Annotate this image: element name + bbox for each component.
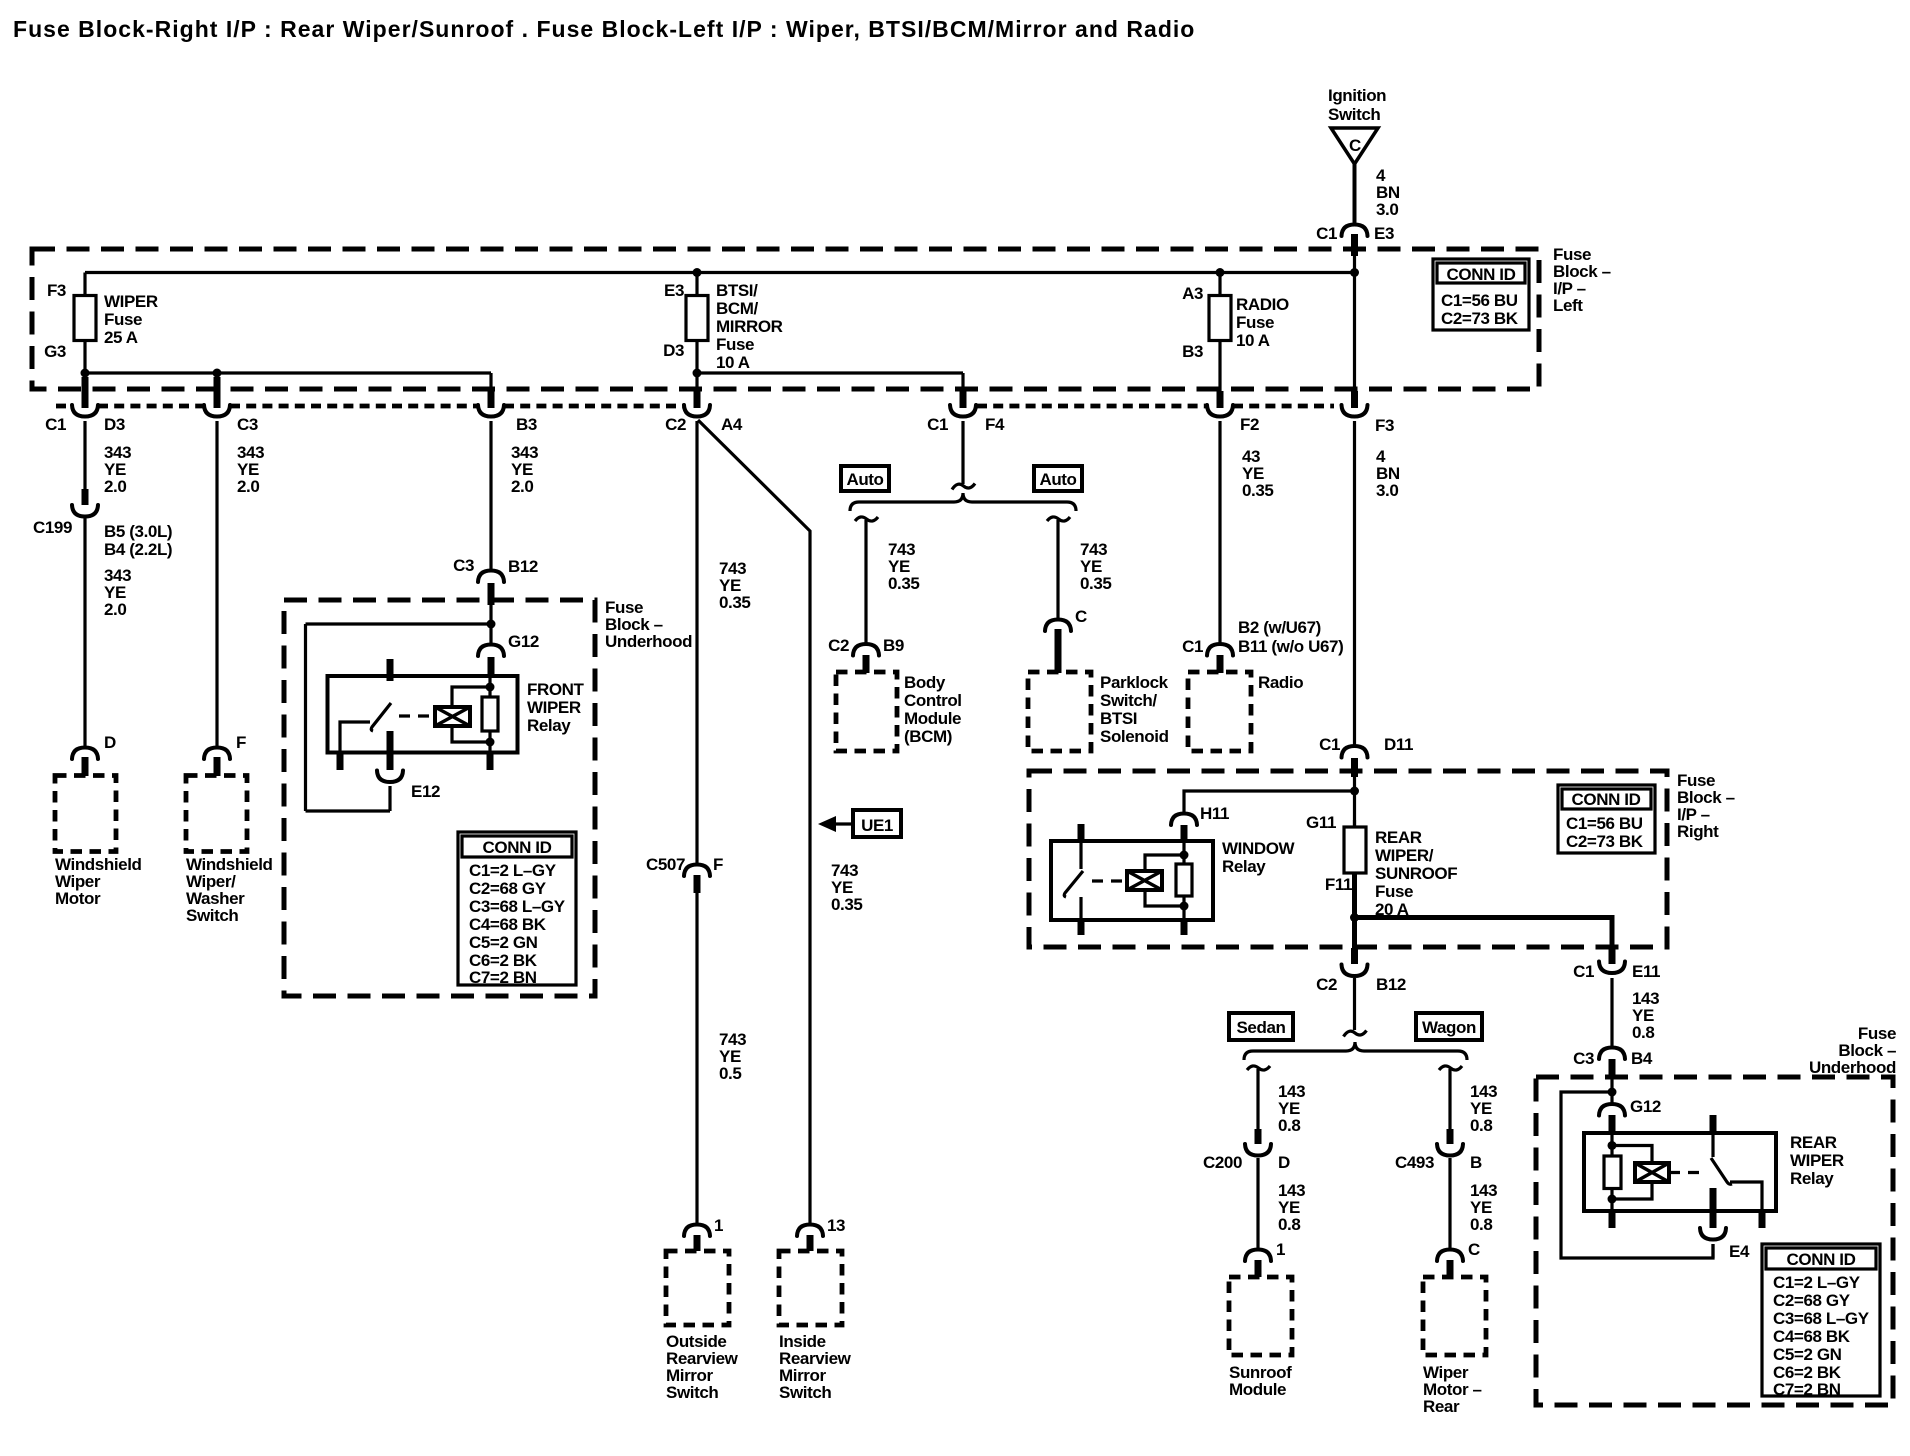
svg-text:C1=2 L–GY: C1=2 L–GY [469,861,557,880]
svg-text:G11: G11 [1306,813,1336,832]
svg-text:2.0: 2.0 [237,477,259,496]
svg-text:0.35: 0.35 [1080,574,1112,593]
svg-text:C2=73 BK: C2=73 BK [1441,309,1519,328]
label Fuse Block - Underhood [605,598,692,651]
window relay coil X-box [1127,871,1162,890]
node fuse out [1350,913,1359,922]
svg-text:Right: Right [1677,822,1719,841]
connector C1 (radio) [1182,618,1343,673]
inside rearview mirror switch box [779,1251,842,1325]
wire B12 to G12 [489,605,492,646]
windshield wiper/washer switch box [186,776,247,852]
wire label 143 YE 0.8 [1632,989,1659,1042]
wire E12 to loop [388,786,391,811]
relay pin bottom E12 [387,731,394,770]
svg-text:Fuse: Fuse [716,335,754,354]
svg-text:Module: Module [904,709,961,728]
svg-text:B3: B3 [1182,342,1203,361]
window relay coil branch [1145,855,1184,906]
Fuse Block - I/P - Left dashed box [32,249,1539,389]
svg-text:B2 (w/U67): B2 (w/U67) [1238,618,1321,637]
svg-text:E11: E11 [1632,962,1660,981]
connector C1/D3 [45,377,125,434]
wire C507 to outside mirror switch [695,893,698,1224]
window relay pin top-left [1078,824,1085,843]
svg-text:C7=2 BN: C7=2 BN [469,968,537,987]
svg-text:Switch: Switch [779,1383,831,1402]
label Fuse Block - I/P - Left [1553,245,1611,315]
svg-text:WIPER: WIPER [1790,1151,1844,1170]
connector 1 (sunroof) [1245,1240,1285,1277]
rear loop wire [1561,1092,1713,1258]
svg-text:Switch/: Switch/ [1100,691,1157,710]
wire label 43 YE 0.35 [1242,447,1274,500]
REAR WIPER relay box [1584,1133,1776,1211]
wire label 143 YE 0.8 [1278,1082,1305,1135]
svg-text:Fuse: Fuse [1375,882,1413,901]
wire B12 to split [1353,978,1356,1030]
svg-text:CONN ID: CONN ID [1572,790,1641,809]
relay pin bottom-right stub [487,751,494,770]
options split brace [850,493,1076,511]
left branch hook [855,517,878,521]
Auto tag left [841,466,889,491]
outside rearview mirror switch box [666,1251,729,1325]
svg-text:H11: H11 [1200,804,1229,823]
svg-text:2.0: 2.0 [104,600,126,619]
connector F2 (row) [1207,391,1259,434]
svg-text:E3: E3 [664,281,684,300]
fuse F3/G3 WIPER 25A [44,281,158,361]
wagon branch wire [1448,1069,1451,1130]
svg-text:G12: G12 [1630,1097,1661,1116]
svg-text:C1: C1 [1316,224,1337,243]
wire label 143 YE 0.8 [1470,1082,1497,1135]
svg-text:0.5: 0.5 [719,1064,741,1083]
rear relay switch pin top [1710,1115,1717,1134]
connector H11 [1171,804,1229,843]
connector C1/E3 [1316,224,1394,256]
connector row dotted line (left harness) [56,404,72,409]
relay switch arm [371,703,391,731]
svg-text:BTSI/: BTSI/ [716,281,758,300]
svg-text:MIRROR: MIRROR [716,317,783,336]
svg-text:F11: F11 [1325,875,1352,894]
ignition switch triangle symbol [1331,128,1378,164]
wire label 4 BN 3.0 [1376,447,1400,500]
svg-text:D3: D3 [663,341,684,360]
window relay switch arm [1064,871,1083,897]
wire label 743 YE 0.5 [719,1030,746,1083]
svg-text:F2: F2 [1240,415,1259,434]
svg-text:C2=73 BK: C2=73 BK [1566,832,1644,851]
svg-text:WIPER: WIPER [104,292,158,311]
mechanical link dashes [1669,1171,1706,1174]
svg-text:C7=2 BN: C7=2 BN [1773,1380,1841,1399]
svg-text:0.8: 0.8 [1470,1215,1492,1234]
svg-text:REAR: REAR [1375,828,1422,847]
svg-text:C1: C1 [927,415,948,434]
left branch wire [864,520,867,644]
Wagon tag [1416,1013,1482,1040]
svg-text:A3: A3 [1182,284,1203,303]
Fuse Block - Underhood dashed box (rear) [1536,1077,1893,1405]
svg-text:D11: D11 [1384,735,1413,754]
svg-text:Auto: Auto [846,470,883,489]
connector G12 (rear relay) [1599,1097,1661,1134]
svg-text:3.0: 3.0 [1376,481,1398,500]
svg-text:C3: C3 [1573,1049,1594,1068]
svg-text:0.35: 0.35 [1242,481,1274,500]
node rear loop [1608,1088,1617,1097]
relay pin bottom-left stub [337,751,344,770]
svg-text:Auto: Auto [1039,470,1076,489]
sedan branch hook [1247,1066,1270,1070]
node H11 branch [1350,787,1359,796]
relay coil branch wires [452,687,490,742]
svg-text:10 A: 10 A [1236,331,1270,350]
connector E12 [377,771,440,802]
svg-text:2.0: 2.0 [104,477,126,496]
windshield wiper motor box [55,776,116,852]
svg-text:C3=68 L–GY: C3=68 L–GY [1773,1309,1870,1328]
connector C3/B12 [453,556,538,605]
node loop junction [487,620,496,629]
split squiggle [1344,1031,1367,1037]
svg-text:Underhood: Underhood [605,632,692,651]
Fuse Block - I/P - Right dashed box [1029,771,1667,947]
svg-text:F: F [713,855,723,874]
svg-text:CONN ID: CONN ID [1447,265,1516,284]
svg-text:Sedan: Sedan [1236,1018,1285,1037]
fuse A3/B3 RADIO 10A [1182,284,1289,361]
wire C3 down [215,421,218,747]
svg-text:Body: Body [904,673,946,692]
svg-text:WINDOW: WINDOW [1222,839,1296,858]
svg-text:B3: B3 [516,415,537,434]
svg-text:B11 (w/o U67): B11 (w/o U67) [1238,637,1343,656]
svg-text:C199: C199 [33,518,72,537]
svg-text:F4: F4 [985,415,1005,434]
svg-text:C: C [1075,607,1087,626]
svg-text:3.0: 3.0 [1376,200,1398,219]
wire B3 drop [489,373,492,392]
wire label 743 YE 0.35 [888,540,920,593]
svg-text:Radio: Radio [1258,673,1303,692]
svg-text:Relay: Relay [1222,857,1266,876]
svg-text:C1: C1 [45,415,66,434]
connector row dotted line (right harness) [977,404,1207,409]
svg-text:G12: G12 [508,632,539,651]
wiper motor rear box [1423,1277,1486,1355]
svg-text:0.8: 0.8 [1470,1116,1492,1135]
REAR WIPER/SUNROOF fuse [1306,813,1457,919]
svg-text:REAR: REAR [1790,1133,1837,1152]
svg-text:BCM/: BCM/ [716,299,759,318]
svg-text:Rear: Rear [1423,1397,1460,1416]
connector 1 (outside mirror) [684,1216,723,1251]
svg-text:Module: Module [1229,1380,1286,1399]
svg-text:BTSI: BTSI [1100,709,1137,728]
svg-text:D: D [104,733,116,752]
connector C2/B9 [828,636,904,673]
connector C493/B [1395,1129,1482,1172]
connector C1/F4 [927,391,1005,434]
svg-text:WIPER/: WIPER/ [1375,846,1434,865]
Auto tag right [1034,466,1082,491]
wire label 743 YE 0.35 [1080,540,1112,593]
svg-text:A4: A4 [721,415,743,434]
svg-text:Switch: Switch [666,1383,718,1402]
svg-text:C4=68 BK: C4=68 BK [469,915,547,934]
svg-text:C1: C1 [1573,962,1594,981]
rear relay pin bottom-left stub [1609,1209,1616,1228]
connector C507/F [646,855,723,893]
rear relay pin E4 stub [1710,1188,1717,1228]
svg-text:B: B [1470,1153,1482,1172]
wire F3 right drop [1353,273,1356,393]
svg-text:SUNROOF: SUNROOF [1375,864,1457,883]
svg-text:C3: C3 [237,415,258,434]
wire C199 to motor [83,518,86,747]
UE1 callout arrow [818,810,901,837]
connector B3 (row) [478,391,537,434]
wire to H11 [1184,791,1355,815]
wire C200 down [1256,1158,1259,1250]
wire C1/F4 down [961,421,964,484]
svg-text:WIPER: WIPER [527,698,581,717]
svg-text:C2=68 GY: C2=68 GY [469,879,547,898]
wagon branch hook [1439,1066,1462,1070]
svg-text:0.35: 0.35 [719,593,751,612]
window relay pin bottom-right [1181,918,1188,935]
svg-text:Parklock: Parklock [1100,673,1169,692]
wire label 143 YE 0.8 [1470,1181,1497,1234]
relay pin top-left [387,659,394,681]
wire label 343 YE 2.0 [104,443,131,496]
wire loop bottom [306,809,391,812]
svg-text:G3: G3 [44,342,66,361]
lower bus left [85,371,491,374]
svg-text:C507: C507 [646,855,685,874]
window relay resistor branch [1182,841,1185,920]
svg-text:Control: Control [904,691,962,710]
svg-text:Left: Left [1553,296,1583,315]
connector C (parklock) [1045,607,1087,673]
svg-text:UE1: UE1 [861,816,893,835]
svg-text:FRONT: FRONT [527,680,585,699]
wire E4 to loop [1711,1244,1714,1258]
wire C493 down [1448,1158,1451,1250]
label Fuse Block - I/P - Right [1677,771,1735,841]
wire loop vertical [304,624,307,811]
node at BTSI fuse top [693,268,702,277]
wire label 343 YE 2.0 [511,443,538,496]
svg-text:C: C [1468,1240,1480,1259]
wire label 143 YE 0.8 [1278,1181,1305,1234]
CONN ID table (front underhood) [458,832,576,987]
wire C2/A4 down (outside mirror) [695,421,698,864]
svg-text:C3=68 L–GY: C3=68 L–GY [469,897,566,916]
svg-text:B9: B9 [883,636,904,655]
svg-text:Motor: Motor [55,889,101,908]
svg-text:C: C [1349,136,1361,155]
wire label 743 YE 0.35 [831,861,863,914]
svg-text:25 A: 25 A [104,328,138,347]
connector C2/A4 [665,391,743,434]
svg-text:CONN ID: CONN ID [483,838,552,857]
svg-text:C5=2 GN: C5=2 GN [469,933,538,952]
connector C1/E11 [1573,948,1660,981]
CONN ID table (fuse block right) [1558,785,1655,853]
svg-text:C2: C2 [1316,975,1337,994]
wire RADIO fuse leg [1218,273,1221,393]
svg-text:E3: E3 [1374,224,1394,243]
svg-text:RADIO: RADIO [1236,295,1289,314]
svg-text:E4: E4 [1729,1242,1750,1261]
connector F3 (row) [1342,391,1395,435]
svg-text:C2: C2 [665,415,686,434]
svg-text:C200: C200 [1203,1153,1242,1172]
svg-text:C2: C2 [828,636,849,655]
svg-text:C1=56 BU: C1=56 BU [1441,291,1518,310]
svg-text:C1=56 BU: C1=56 BU [1566,814,1643,833]
sedan branch wire [1256,1069,1259,1130]
svg-text:B4 (2.2L): B4 (2.2L) [104,540,172,559]
svg-text:Fuse: Fuse [104,310,142,329]
wire F3 down to D11 [1353,421,1356,747]
svg-text:Solenoid: Solenoid [1100,727,1169,746]
right branch hook [1047,517,1070,521]
right branch wire [1056,520,1059,618]
window relay fixed contact [1079,843,1082,869]
Sedan tag [1229,1013,1293,1040]
svg-text:Ignition: Ignition [1328,86,1386,105]
connector C3/B4 [1573,1048,1653,1078]
fuse E3/D3 BTSI/BCM/MIRROR 10A [663,281,783,372]
wire E11 down [1610,978,1613,1047]
svg-text:0.8: 0.8 [1632,1023,1654,1042]
rear relay resistor [1604,1156,1621,1189]
rear relay switch arm [1711,1158,1732,1184]
svg-text:C3: C3 [453,556,474,575]
svg-text:B4: B4 [1631,1049,1653,1068]
node at RADIO fuse top [1216,268,1225,277]
ignition switch label [1328,86,1386,124]
svg-text:13: 13 [827,1216,845,1235]
svg-text:Fuse: Fuse [1236,313,1274,332]
connector 13 (inside mirror) [797,1216,845,1251]
svg-text:0.35: 0.35 [888,574,920,593]
svg-text:C1: C1 [1319,735,1340,754]
radio box [1188,672,1251,751]
Fuse Block - Underhood dashed box (front) [284,600,595,996]
connector C (rear wiper motor) [1437,1240,1480,1277]
rear relay pin bottom-right stub [1759,1209,1766,1228]
svg-text:F3: F3 [1375,416,1394,435]
svg-text:C5=2 GN: C5=2 GN [1773,1345,1842,1364]
svg-text:(BCM): (BCM) [904,727,952,746]
wire B4 into box [1610,1077,1613,1105]
wire F3 fuse leg [83,273,86,374]
connector C3 (row) [204,377,258,434]
svg-text:Switch: Switch [186,906,238,925]
svg-text:1: 1 [1276,1240,1285,1259]
CONN ID table (rear underhood) [1762,1244,1880,1399]
svg-text:CONN ID: CONN ID [1787,1250,1856,1269]
connector C200/D [1203,1129,1290,1172]
connector D (wiper motor) [72,733,116,776]
svg-text:0.8: 0.8 [1278,1215,1300,1234]
svg-text:F: F [236,733,246,752]
svg-text:D3: D3 [104,415,125,434]
svg-text:C1: C1 [1182,637,1203,656]
wire B3 down [489,421,492,572]
wire ignition to C1/E3 [1353,164,1357,224]
svg-text:Relay: Relay [527,716,571,735]
svg-text:B12: B12 [1376,975,1406,994]
wire loop horizontal [306,622,492,625]
svg-text:Fuse Block-Right I/P : Rear Wi: Fuse Block-Right I/P : Rear Wiper/Sunroo… [13,16,1195,42]
svg-text:B5 (3.0L): B5 (3.0L) [104,522,172,541]
wire to E11 corner [1355,918,1613,949]
rear relay coil branch [1612,1146,1652,1200]
wire F2 down to radio [1218,421,1221,644]
svg-text:C1=2 L–GY: C1=2 L–GY [1773,1273,1861,1292]
svg-text:1: 1 [714,1216,723,1235]
svg-text:2.0: 2.0 [511,477,533,496]
svg-text:B12: B12 [508,557,538,576]
connector E4 [1700,1228,1750,1261]
svg-text:Wagon: Wagon [1422,1018,1476,1037]
connector C1/D11 [1319,735,1413,777]
window relay resistor [1176,864,1192,896]
window relay pin bottom-left [1079,897,1082,920]
svg-text:10 A: 10 A [716,353,750,372]
svg-text:Underhood: Underhood [1809,1058,1896,1077]
mechanical link dashes [399,714,434,717]
relay coil X-box [435,707,470,726]
wire E3 to bus [1353,256,1356,274]
svg-text:0.8: 0.8 [1278,1116,1300,1135]
sunroof module box [1229,1277,1292,1355]
label Fuse Block - Underhood (rear) [1809,1024,1896,1077]
mechanical link dashes [1092,879,1127,882]
relay switch common wire [340,722,370,753]
svg-text:F3: F3 [47,281,66,300]
split squiggle [952,484,975,490]
svg-text:C2=68 GY: C2=68 GY [1773,1291,1851,1310]
svg-text:Switch: Switch [1328,105,1380,124]
mid bus to F4 [697,371,963,374]
relay resistor [482,697,498,731]
node at ignition feed [1350,268,1359,277]
FRONT WIPER relay box [328,676,518,753]
wire A4 diagonal to inside mirror [698,420,810,1224]
wire BTSI fuse leg [695,273,698,374]
parklock switch/BTSI solenoid box [1028,672,1091,751]
wire C1/D3 down [83,421,86,490]
top bus wire [85,271,1355,274]
svg-text:E12: E12 [411,782,440,801]
wire label 4 BN 3.0 [1376,166,1400,219]
WINDOW relay box [1051,841,1213,920]
rear relay resistor branch [1610,1133,1613,1211]
connector F (washer switch) [204,733,246,776]
body control module box [836,672,897,751]
svg-text:C4=68 BK: C4=68 BK [1773,1327,1851,1346]
wire label 343 YE 2.0 [104,566,131,619]
